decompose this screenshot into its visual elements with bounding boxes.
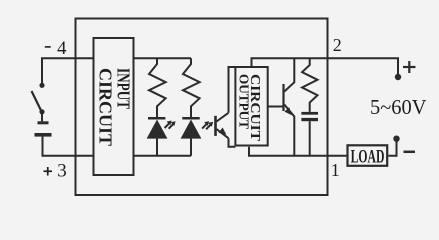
wire Q1 collector to output block: [229, 67, 236, 113]
output circuit block U2: [235, 67, 267, 146]
svg-text:1: 1: [331, 160, 340, 180]
outer SSR package box: [76, 19, 328, 196]
minus sign right: [404, 151, 416, 154]
wire switch to battery: [41, 112, 43, 121]
svg-text:2: 2: [333, 35, 342, 55]
switch S1 upper contact dot: [39, 83, 44, 88]
svg-text:3: 3: [57, 160, 67, 181]
battery BT1: [35, 121, 52, 136]
svg-text:5~60V: 5~60V: [370, 95, 427, 119]
node dot terminal 1 minus: [393, 136, 399, 142]
transistor Q2: [284, 58, 295, 156]
wire LED D2 to bottom rail: [190, 139, 192, 156]
transistor Q2 emitter arrowhead: [284, 107, 291, 115]
plus sign right: [403, 61, 416, 73]
capacitor C1: [301, 112, 318, 121]
light arrows from D2: [202, 124, 211, 130]
svg-text:CIRCUIT: CIRCUIT: [248, 74, 263, 141]
resistor R2: [183, 58, 200, 117]
load box: [348, 145, 388, 166]
wire terminal 2 rail: [252, 58, 399, 75]
switch S1 lower contact dot: [39, 109, 44, 114]
svg-text:LOAD: LOAD: [351, 146, 385, 167]
switch S1 blade: [32, 91, 42, 112]
light arrows from D1: [165, 123, 174, 129]
wire internal bottom rail: [134, 155, 192, 157]
wire capacitor C1 to terminal 1 rail: [309, 121, 311, 156]
svg-text:4: 4: [57, 38, 67, 59]
node dot terminal 2 plus: [395, 74, 401, 80]
svg-text:CIRCUIT: CIRCUIT: [95, 68, 115, 146]
label plus at terminal 3: [44, 167, 53, 176]
phototransistor Q1: [216, 113, 229, 139]
LED D2: [181, 117, 202, 139]
wire terminal 1 rail: [249, 147, 346, 156]
wire base lead to transistor Q2: [268, 106, 283, 108]
LED D1: [147, 117, 168, 139]
wire LOAD to terminal minus: [388, 140, 396, 156]
wire terminal 3 (plus input): [43, 137, 94, 156]
wire LED D1 to bottom rail: [156, 139, 158, 156]
input circuit block U1: [94, 38, 134, 175]
svg-text:INPUT: INPUT: [113, 68, 133, 109]
resistor R1: [149, 58, 166, 117]
phototransistor Q1 emitter arrowhead: [219, 128, 227, 135]
wire Q1 emitter to output block: [229, 138, 236, 147]
label minus at terminal 4: [45, 46, 51, 48]
wire internal top rail: [134, 57, 192, 59]
resistor R3: [302, 58, 317, 112]
wire terminal 4 (minus input): [42, 58, 94, 84]
